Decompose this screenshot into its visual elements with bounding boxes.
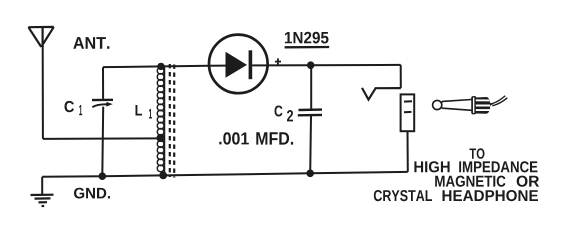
wire diode to top right corner — [267, 64, 400, 67]
label .001 — [219, 132, 249, 144]
plus sign — [275, 58, 281, 64]
label CRYSTAL — [374, 190, 432, 201]
label MAGNETIC — [435, 176, 505, 187]
node L1 bottom — [159, 172, 167, 180]
label ANT. — [73, 37, 109, 49]
inductor L1 — [157, 67, 164, 176]
label OR — [517, 176, 539, 187]
label L1 - subscript 1 — [149, 109, 152, 119]
headphone plug illustration — [433, 96, 508, 114]
node L1 top — [157, 63, 164, 70]
antenna — [28, 27, 53, 47]
phone plug rectangle (jack) — [401, 94, 415, 131]
label C2 - subscript 2 — [287, 110, 293, 121]
label C2 - C — [275, 106, 283, 117]
underline for 1N295 — [285, 46, 330, 49]
ground — [31, 177, 54, 206]
bottom wire — [42, 172, 408, 177]
capacitor C1 — [92, 67, 113, 176]
wire antenna to coil tap — [43, 137, 160, 140]
node C2 top — [307, 61, 315, 69]
node L1 tap — [157, 135, 164, 142]
label L1 - L — [136, 105, 143, 116]
node C1 bottom — [99, 172, 107, 180]
wire top left: C1 corner to diode — [103, 66, 209, 67]
wire antenna lead — [42, 46, 44, 139]
label 1N295 — [285, 32, 329, 44]
label C1 - C — [65, 101, 75, 112]
node C2 bottom — [306, 170, 314, 178]
diode D1 — [209, 35, 268, 94]
label C1 - subscript 1 — [79, 105, 82, 115]
wire jack to bottom — [407, 131, 409, 172]
label HEADPHONE — [443, 190, 539, 201]
capacitor C2 — [298, 65, 322, 173]
label HIGH — [414, 161, 449, 172]
wire top right corner down — [400, 65, 402, 88]
label IMPEDANCE — [459, 161, 537, 172]
label MFD. — [256, 132, 293, 144]
label GND. — [74, 188, 110, 199]
jack spring contact — [362, 88, 401, 100]
core dashed lines — [170, 64, 174, 178]
label TO — [470, 148, 485, 159]
